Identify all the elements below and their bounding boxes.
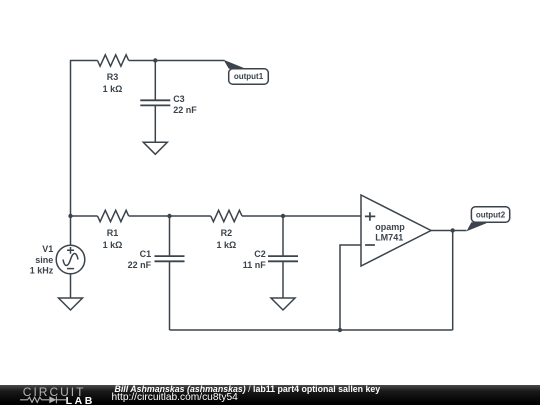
svg-text:22 nF: 22 nF	[128, 260, 152, 270]
svg-text:C2: C2	[254, 249, 266, 259]
svg-text:1 kHz: 1 kHz	[30, 265, 54, 275]
svg-text:R2: R2	[221, 228, 233, 238]
svg-text:22 nF: 22 nF	[173, 105, 197, 115]
svg-text:C1: C1	[140, 249, 152, 259]
svg-text:opamp: opamp	[375, 222, 405, 232]
svg-text:1 kΩ: 1 kΩ	[103, 240, 123, 250]
svg-text:1 kΩ: 1 kΩ	[103, 84, 123, 94]
svg-text:output1: output1	[234, 72, 264, 81]
svg-text:R3: R3	[107, 72, 119, 82]
svg-text:LM741: LM741	[375, 232, 403, 242]
svg-text:sine: sine	[35, 255, 53, 265]
svg-text:output2: output2	[476, 211, 506, 220]
svg-text:C3: C3	[173, 94, 185, 104]
svg-text:V1: V1	[42, 244, 53, 254]
svg-text:R1: R1	[107, 228, 119, 238]
svg-text:11 nF: 11 nF	[243, 260, 267, 270]
svg-text:1 kΩ: 1 kΩ	[217, 240, 237, 250]
svg-text:LAB: LAB	[66, 395, 95, 405]
